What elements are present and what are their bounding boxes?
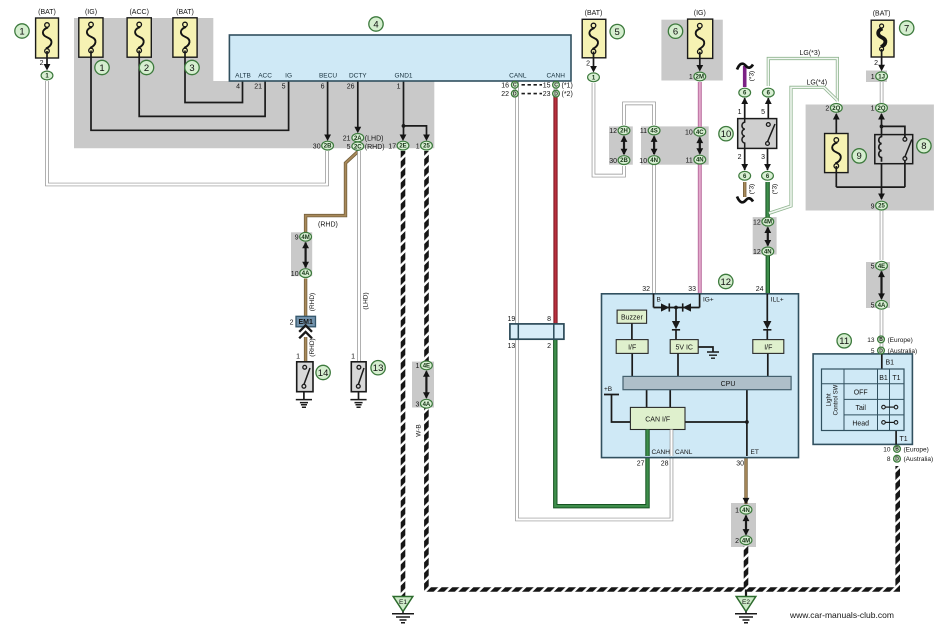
- circled 14: [316, 365, 330, 379]
- connector 30(2B) left: [322, 141, 334, 150]
- svg-text:1: 1: [19, 26, 24, 37]
- svg-text:8: 8: [547, 316, 551, 323]
- svg-text:LG(*4): LG(*4): [807, 80, 828, 87]
- svg-text:4E: 4E: [878, 264, 885, 270]
- svg-text:Control SW: Control SW: [834, 384, 840, 415]
- svg-text:Buzzer: Buzzer: [621, 315, 643, 322]
- svg-text:33: 33: [688, 286, 696, 293]
- svg-text:5: 5: [347, 144, 351, 151]
- svg-text:ALTB: ALTB: [235, 73, 251, 80]
- grey region connectors 4S/4N 4C/4N: [641, 126, 709, 164]
- circled 1 fuse1: [15, 24, 29, 38]
- svg-text:2: 2: [547, 343, 551, 350]
- svg-text:5: 5: [615, 27, 620, 38]
- break symbol purple: [737, 64, 753, 70]
- node oval 6 brown: [739, 171, 751, 180]
- grey region connector 4N/4M bottom: [731, 503, 756, 547]
- svg-text:4A: 4A: [423, 402, 431, 408]
- diode D4: [763, 321, 771, 330]
- connector pair 11(4S)/10(4N): [648, 126, 660, 135]
- EM1 block: [296, 316, 316, 327]
- svg-text:11: 11: [686, 157, 693, 164]
- svg-text:2A: 2A: [354, 136, 362, 142]
- svg-text:2: 2: [290, 320, 294, 327]
- svg-text:9: 9: [871, 203, 875, 210]
- grey region relay 8 and fuse 9: [806, 105, 934, 211]
- svg-text:26: 26: [347, 84, 355, 91]
- svg-text:5: 5: [761, 109, 765, 116]
- wire DCTY to connector 2A: [357, 81, 359, 127]
- svg-text:3: 3: [189, 63, 194, 74]
- svg-text:2B: 2B: [324, 144, 332, 150]
- svg-text:10: 10: [883, 446, 891, 453]
- circled 7: [900, 21, 914, 35]
- junction connector J/C: [510, 324, 564, 339]
- svg-text:Light: Light: [827, 393, 833, 406]
- svg-text:(Australia): (Australia): [888, 348, 918, 355]
- grey region fuse 6: [661, 20, 722, 81]
- svg-text:ET: ET: [751, 449, 759, 456]
- svg-text:4M: 4M: [742, 538, 750, 544]
- svg-text:4M: 4M: [764, 220, 772, 226]
- svg-text:25: 25: [878, 204, 885, 210]
- grey strip connector 1J: [866, 71, 887, 83]
- svg-text:11: 11: [640, 128, 647, 135]
- connector 1(25): [421, 141, 433, 150]
- wire white LHD 2C to switch 13: [357, 151, 361, 362]
- svg-text:23: 23: [543, 91, 551, 98]
- ground E1: [392, 597, 414, 623]
- fuse bottom stubs: [47, 49, 882, 173]
- svg-text:30: 30: [736, 460, 744, 467]
- svg-text:21: 21: [343, 135, 351, 142]
- arrow GND1 left: [400, 135, 407, 142]
- node oval 6 LG: [762, 88, 774, 97]
- svg-text:8: 8: [921, 141, 926, 152]
- I/F box left: [616, 340, 648, 354]
- circled 10: [719, 127, 733, 141]
- arrow up fuse9 top: [833, 113, 840, 120]
- svg-text:27: 27: [637, 460, 645, 467]
- arrow up relay10 pin1: [741, 98, 748, 105]
- svg-text:CAN I/F: CAN I/F: [645, 417, 670, 424]
- svg-text:2: 2: [735, 538, 739, 545]
- svg-text:I/F: I/F: [764, 344, 772, 351]
- svg-text:2B: 2B: [620, 158, 628, 164]
- svg-text:www.car-manuals-club.com: www.car-manuals-club.com: [789, 610, 894, 620]
- wire white 2H to 4S: [624, 103, 654, 125]
- wire fuse9 to 2Q: [835, 114, 837, 134]
- wire purple relay 10 pin 1: [743, 66, 747, 87]
- circle C CANL: [511, 81, 518, 88]
- svg-text:6: 6: [673, 27, 678, 38]
- wire white 4N to pin 32: [652, 165, 656, 295]
- svg-text:10: 10: [721, 129, 732, 140]
- circle D australia bottom: [894, 455, 901, 462]
- svg-text:I/F: I/F: [628, 344, 636, 351]
- svg-text:B: B: [657, 297, 661, 304]
- wire white fuse 1 to connector 2B: [47, 81, 327, 185]
- svg-text:BECU: BECU: [319, 73, 337, 80]
- fuse F6 IG: [688, 19, 713, 58]
- CANH green inside: [645, 430, 649, 457]
- wire white CANL down to junction: [515, 81, 519, 325]
- circle C CANH: [553, 81, 560, 88]
- svg-text:CANL: CANL: [509, 73, 527, 80]
- circle D CANH: [553, 90, 560, 97]
- diode D1: [661, 303, 669, 311]
- wire fuse 5 pin 2: [593, 58, 595, 67]
- wire relay 10 pin3: [767, 148, 769, 170]
- svg-text:2: 2: [40, 60, 44, 67]
- connector 21(2A): [352, 134, 364, 142]
- svg-text:8: 8: [887, 456, 891, 463]
- svg-text:2Q: 2Q: [877, 106, 885, 112]
- wire relay 10 pin2: [744, 148, 746, 170]
- wire white fuse 5 to connector 2B: [594, 83, 625, 176]
- connector 5(2C): [352, 142, 364, 150]
- connector 2(2Q): [830, 104, 842, 113]
- svg-text:(BAT): (BAT): [176, 9, 194, 16]
- svg-text:11: 11: [839, 336, 849, 347]
- CAN I/F box: [630, 407, 685, 429]
- svg-text:5: 5: [871, 348, 875, 355]
- svg-text:25: 25: [423, 144, 430, 150]
- svg-text:22: 22: [501, 91, 509, 98]
- arrow down to 9(25): [878, 194, 885, 201]
- svg-text:(RHD): (RHD): [318, 222, 338, 229]
- node oval 1 below fuse 1: [41, 71, 53, 80]
- svg-text:+B: +B: [604, 386, 612, 393]
- svg-text:ACC: ACC: [258, 73, 272, 80]
- svg-text:1: 1: [416, 143, 420, 150]
- grey region connector 4E/4A left: [412, 362, 434, 408]
- svg-text:5V IC: 5V IC: [675, 344, 693, 351]
- svg-text:1: 1: [397, 84, 401, 91]
- connector pair 9(4M)/10(4A) brown: [300, 232, 312, 241]
- arrow fuse6: [696, 65, 703, 72]
- svg-text:(RHD): (RHD): [309, 293, 316, 311]
- svg-text:1: 1: [871, 74, 875, 81]
- svg-text:2: 2: [874, 60, 878, 67]
- node oval 1 below fuse 5: [588, 73, 600, 82]
- wire E2 stub: [745, 590, 747, 598]
- connector pair 12(4M)/12(4N) green: [762, 217, 774, 226]
- svg-text:4N: 4N: [764, 250, 772, 256]
- connector 9(25): [876, 201, 888, 210]
- svg-text:28: 28: [661, 460, 669, 467]
- wire white 1J to 2Q: [880, 82, 884, 103]
- svg-text:CANH: CANH: [546, 73, 565, 80]
- svg-text:4N: 4N: [650, 158, 658, 164]
- svg-text:(IG): (IG): [85, 9, 97, 16]
- connector pair 12(2H)/30(2B): [618, 126, 630, 135]
- svg-text:(RHD): (RHD): [365, 144, 385, 151]
- svg-text:(*2): (*2): [562, 91, 573, 98]
- fuse F7 BAT bold: [871, 20, 894, 57]
- svg-text:30: 30: [609, 158, 617, 165]
- connector pair 1(4N)/2(4M) bottom: [743, 498, 750, 505]
- svg-text:2: 2: [144, 63, 149, 74]
- node oval 6 green: [762, 171, 774, 180]
- connector 17(2E): [397, 141, 409, 150]
- wire red CANH to junction: [553, 96, 557, 325]
- svg-text:DCTY: DCTY: [349, 73, 367, 80]
- 5V IC box: [670, 340, 698, 354]
- svg-text:(RHD): (RHD): [309, 338, 316, 356]
- svg-text:2E: 2E: [399, 144, 406, 150]
- svg-text:2: 2: [738, 154, 742, 161]
- svg-text:7: 7: [904, 23, 909, 34]
- wire brown 2C to EM1 to switch 14: [306, 151, 359, 232]
- svg-text:10: 10: [639, 158, 647, 165]
- grey region connector 4M/4A left: [291, 232, 312, 276]
- svg-text:B1: B1: [886, 360, 895, 367]
- svg-text:B: B: [879, 337, 883, 343]
- svg-text:2Q: 2Q: [832, 106, 840, 112]
- wire fuse BAT3 to pin ALTB: [185, 57, 243, 102]
- svg-text:24: 24: [756, 286, 764, 293]
- svg-text:4E: 4E: [423, 364, 430, 370]
- wire white 9(25) down to 4E and box 11: [880, 211, 884, 260]
- wire BECU to connector 2B: [327, 81, 329, 135]
- wire relay 10 pin1: [744, 98, 746, 119]
- svg-text:Tail: Tail: [855, 405, 866, 412]
- wire W-B 25 to bottom bus: [424, 151, 429, 361]
- ground switch 14: [296, 392, 312, 408]
- relay R10: [738, 119, 777, 149]
- circled 6: [668, 24, 682, 38]
- svg-text:1: 1: [738, 109, 742, 116]
- ECU box U4: [229, 35, 571, 81]
- svg-text:12: 12: [609, 128, 617, 135]
- svg-text:10: 10: [291, 271, 299, 278]
- connector 1(1J): [876, 72, 888, 81]
- U11 B1 T1 stubs: [882, 354, 896, 445]
- svg-text:4A: 4A: [302, 271, 310, 277]
- wire W-B ET to bus: [744, 546, 749, 590]
- arrow GND1 right: [423, 135, 430, 142]
- arrow fuse7: [878, 65, 885, 72]
- svg-text:B: B: [895, 447, 899, 453]
- diode D3: [672, 321, 680, 330]
- circle B europe bottom: [894, 446, 901, 453]
- wire white CANH stub: [554, 81, 558, 97]
- svg-text:12: 12: [753, 219, 761, 226]
- connector pair 1(4E)/3(4A) W-B: [421, 361, 433, 370]
- svg-text:D: D: [513, 91, 517, 97]
- svg-text:(BAT): (BAT): [585, 10, 603, 17]
- relay R8: [836, 114, 912, 199]
- svg-text:1: 1: [735, 507, 739, 514]
- svg-text:21: 21: [254, 84, 262, 91]
- svg-text:1: 1: [99, 63, 104, 74]
- break symbol brown: [737, 197, 753, 203]
- wire brown ET pin 30 to 4N: [744, 456, 747, 504]
- fuse F1 BAT: [36, 18, 59, 58]
- fuse F5 BAT: [582, 19, 606, 58]
- I/F box right: [753, 340, 784, 354]
- connector 1(2M): [694, 72, 706, 81]
- grey region connector 4M/4N green: [753, 217, 777, 254]
- svg-text:D: D: [879, 348, 883, 354]
- svg-text:(Europe): (Europe): [888, 337, 913, 344]
- circled 1 fuse IG: [95, 60, 109, 74]
- svg-text:5: 5: [871, 303, 875, 310]
- fuse F9: [825, 134, 848, 173]
- ECU box U12: [602, 294, 799, 458]
- svg-text:5: 5: [282, 84, 286, 91]
- svg-text:1J: 1J: [878, 74, 885, 80]
- circled 2 fuse ACC: [139, 60, 153, 74]
- svg-text:D: D: [554, 91, 558, 97]
- svg-text:17: 17: [388, 143, 396, 150]
- wire pink 2M to pin 33: [698, 82, 702, 133]
- wire W-B 2E to ground E1: [401, 151, 406, 596]
- svg-text:CANL: CANL: [675, 449, 693, 456]
- svg-text:(IG): (IG): [694, 10, 706, 17]
- wire GND1 split: [404, 81, 427, 135]
- circle B europe top: [878, 336, 885, 343]
- light control switch box U11: [813, 354, 912, 445]
- arrow fuse5: [590, 66, 597, 73]
- svg-text:13: 13: [867, 337, 875, 344]
- svg-text:9: 9: [295, 235, 299, 242]
- fuse F3 ACC: [127, 18, 151, 57]
- svg-text:D: D: [895, 457, 899, 463]
- svg-text:C: C: [513, 83, 517, 89]
- svg-text:1: 1: [296, 354, 300, 361]
- circled 11: [837, 334, 851, 348]
- svg-text:(Australia): (Australia): [904, 456, 934, 463]
- svg-text:4N: 4N: [742, 508, 750, 514]
- svg-text:IG+: IG+: [703, 297, 714, 304]
- svg-text:1: 1: [415, 363, 419, 370]
- arrow down relay10 pin3: [764, 164, 771, 171]
- circled 8: [917, 139, 931, 153]
- svg-text:30: 30: [313, 143, 321, 150]
- arrow BECU: [324, 135, 331, 142]
- CPU bar: [623, 376, 791, 389]
- wire green relay10 pin3 to ILL+ pin 24: [765, 182, 769, 223]
- circled 3 fuse BAT: [185, 60, 199, 74]
- svg-text:13: 13: [508, 343, 516, 350]
- svg-text:OFF: OFF: [854, 389, 868, 396]
- svg-text:15: 15: [543, 82, 551, 89]
- svg-text:32: 32: [642, 286, 650, 293]
- dashes row2: [522, 93, 543, 95]
- svg-text:T1: T1: [900, 436, 908, 443]
- svg-text:2H: 2H: [620, 129, 628, 135]
- wire brown relay10 pin2 break: [743, 182, 746, 197]
- svg-text:B1: B1: [879, 375, 888, 382]
- svg-text:4N: 4N: [696, 158, 704, 164]
- buzzer box: [617, 310, 647, 323]
- svg-text:IG: IG: [285, 73, 292, 80]
- wire fuse 1 pin 2: [46, 58, 48, 65]
- svg-text:14: 14: [318, 368, 329, 379]
- svg-text:1: 1: [689, 74, 693, 81]
- svg-text:4: 4: [373, 19, 378, 30]
- svg-text:E1: E1: [399, 599, 407, 606]
- svg-text:CANH: CANH: [652, 449, 671, 456]
- connector pair 5(4E)/5(4A) right: [876, 261, 888, 270]
- svg-text:W-B: W-B: [416, 424, 423, 437]
- circled 9: [852, 149, 866, 163]
- svg-text:E2: E2: [742, 599, 750, 606]
- arrow up relay10 pin5: [765, 98, 772, 105]
- wire fuse 7 pin 2: [881, 57, 883, 66]
- svg-text:(BAT): (BAT): [38, 9, 56, 16]
- svg-text:(ACC): (ACC): [129, 9, 148, 16]
- svg-text:Head: Head: [852, 420, 869, 427]
- connector pair 10(4C)/11(4N): [694, 127, 706, 136]
- svg-text:12: 12: [721, 277, 732, 288]
- svg-text:(*3): (*3): [749, 184, 756, 194]
- wire LG(*3) relay10 pin5 to 2Q: [768, 59, 837, 102]
- svg-text:(Europe): (Europe): [904, 446, 929, 453]
- svg-text:2M: 2M: [696, 75, 704, 81]
- wire fuse IG to pin IG: [91, 57, 289, 130]
- svg-text:3: 3: [761, 154, 765, 161]
- circled 13: [371, 361, 385, 375]
- arrow up relay8 top: [878, 113, 885, 120]
- wire fuse 6 pin: [699, 59, 701, 67]
- grey harness region fuses 1-3: [74, 18, 434, 148]
- connector 1(2Q): [876, 104, 888, 113]
- circled 5: [610, 24, 624, 38]
- ground E2: [735, 597, 757, 623]
- svg-text:T1: T1: [892, 375, 900, 382]
- svg-text:ILL+: ILL+: [771, 297, 784, 304]
- circled 4: [369, 17, 383, 31]
- svg-text:4S: 4S: [650, 129, 657, 135]
- svg-text:(*1): (*1): [562, 82, 573, 89]
- svg-text:(*3): (*3): [749, 71, 756, 81]
- svg-text:GND1: GND1: [394, 73, 412, 80]
- svg-text:1: 1: [871, 106, 875, 113]
- svg-text:12: 12: [753, 249, 761, 256]
- fuse F4 BAT: [173, 18, 197, 57]
- svg-text:16: 16: [501, 82, 509, 89]
- wire relay 10 pin5: [767, 98, 769, 119]
- fuse F2 IG: [79, 18, 103, 57]
- diode D2: [683, 303, 691, 311]
- dashes row1: [522, 84, 543, 86]
- svg-text:13: 13: [373, 363, 384, 374]
- svg-text:2C: 2C: [354, 144, 362, 150]
- svg-text:LG(*3): LG(*3): [800, 50, 821, 57]
- ground switch 13: [350, 392, 366, 408]
- svg-text:9: 9: [857, 151, 862, 162]
- svg-text:3: 3: [415, 401, 419, 408]
- svg-text:2: 2: [825, 106, 829, 113]
- switch SW14: [297, 362, 313, 392]
- svg-text:6: 6: [321, 84, 325, 91]
- svg-text:CPU: CPU: [721, 381, 736, 388]
- svg-text:4M: 4M: [301, 235, 309, 241]
- svg-text:5: 5: [871, 263, 875, 270]
- svg-text:(*3): (*3): [772, 184, 779, 194]
- U12 internal wires: [604, 294, 768, 456]
- circled 12: [719, 274, 733, 288]
- svg-text:(LHD): (LHD): [363, 292, 370, 309]
- svg-text:(BAT): (BAT): [873, 11, 891, 18]
- arrow DCTY: [354, 127, 361, 134]
- svg-text:(LHD): (LHD): [365, 135, 384, 142]
- wire fuse ACC to pin ACC: [139, 57, 265, 116]
- svg-text:4: 4: [236, 84, 240, 91]
